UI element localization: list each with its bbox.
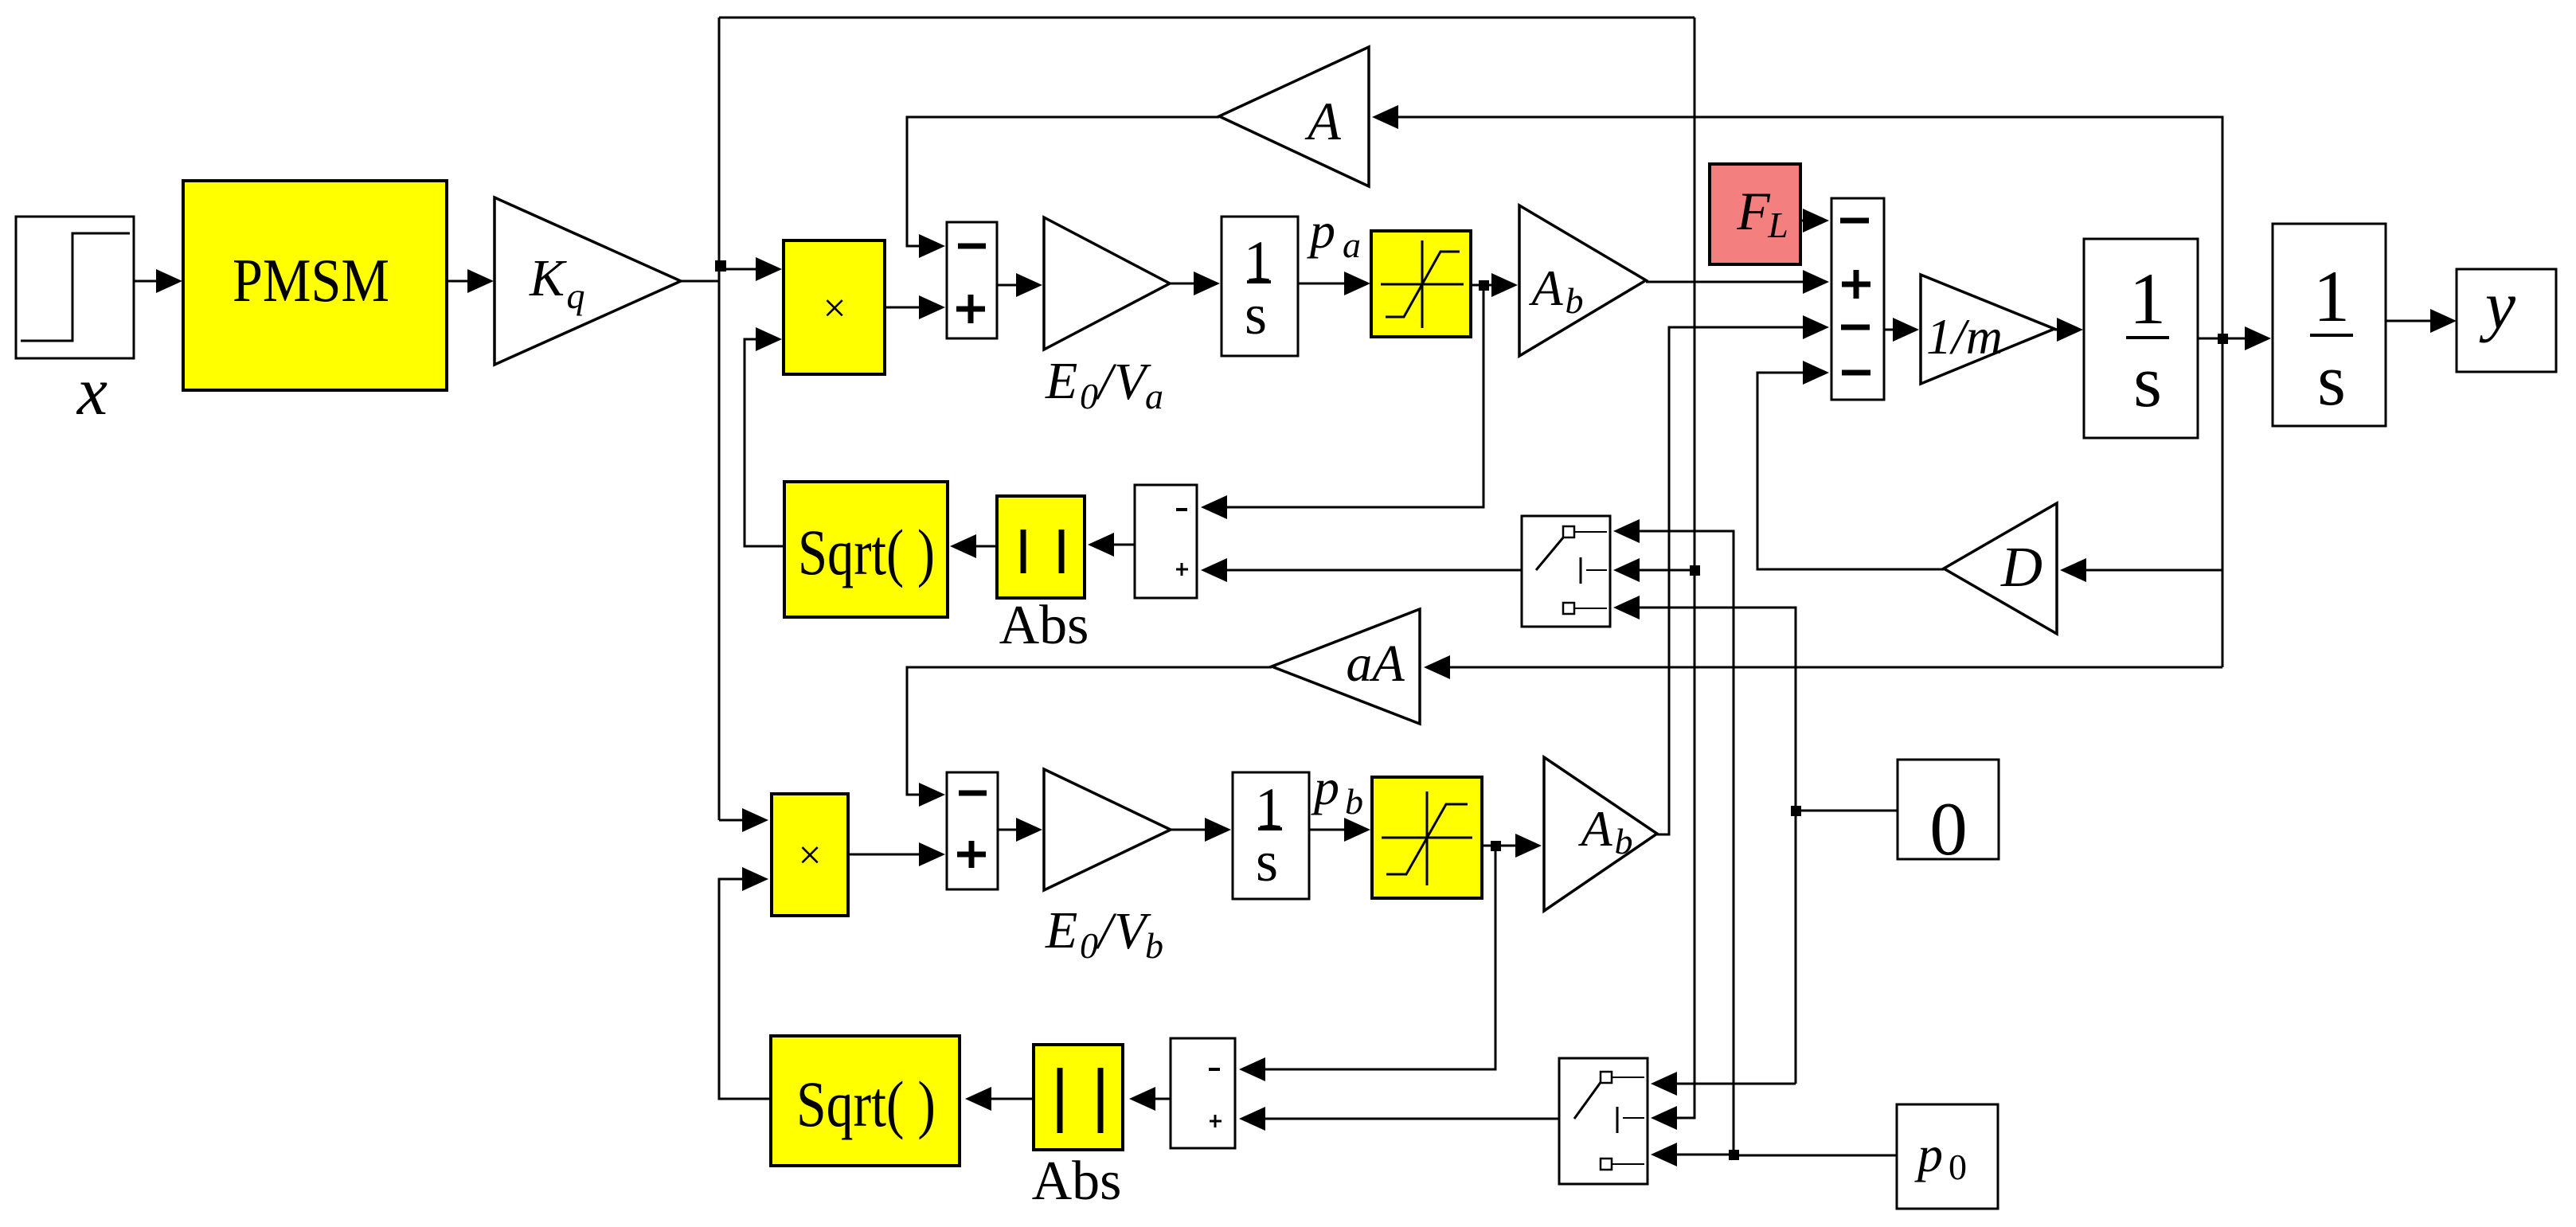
- wire step to PMSM: [134, 269, 182, 293]
- wire p0 to junction: [1734, 1155, 1897, 1157]
- block PMSM: [183, 181, 447, 390]
- svg-text:0: 0: [1080, 376, 1098, 416]
- svg-text:y: y: [2479, 267, 2516, 343]
- svg-text:Abs: Abs: [1032, 1151, 1122, 1212]
- label Abs lower: [1032, 1151, 1122, 1212]
- node junction p0 line: [1729, 1150, 1739, 1160]
- abs block abs2: [1034, 1045, 1123, 1150]
- integrator block 1/s y: [2273, 224, 2386, 426]
- wire product2 to sum2 plus: [848, 842, 945, 866]
- wire switch1 to sum3 plus: [1201, 558, 1522, 582]
- svg-text:b: b: [1566, 280, 1584, 321]
- node junction sat1 output: [1479, 280, 1489, 291]
- sum block force sum: [1831, 198, 1884, 400]
- wire Ab1 to force sum plus: [1646, 270, 1829, 294]
- svg-text:Abs: Abs: [999, 595, 1089, 656]
- svg-text:Sqrt( ): Sqrt( ): [796, 1068, 936, 1140]
- switch block switch1: [1522, 516, 1610, 627]
- svg-text:1/m: 1/m: [1926, 308, 2003, 365]
- node junction control to switch1: [1690, 565, 1700, 576]
- constant block p0: [1897, 1104, 1998, 1209]
- svg-text:1: 1: [2313, 256, 2350, 337]
- label Abs upper: [999, 595, 1089, 656]
- gain Ab lower: [1544, 757, 1657, 911]
- wire abs1 to sqrt1: [950, 534, 997, 558]
- label x: [76, 353, 107, 429]
- gain aA feedback: [1272, 609, 1420, 724]
- svg-text:0: 0: [1080, 925, 1098, 966]
- wire Q control top line: [719, 17, 1695, 19]
- wire zero to junction: [1796, 810, 1898, 812]
- constant block zero: [1898, 760, 1999, 871]
- svg-text:PMSM: PMSM: [233, 246, 389, 315]
- wire Q main vertical: [718, 18, 721, 820]
- wire Ab2 up to force sum minus3: [1657, 315, 1829, 834]
- wire zero vertical to switch1 bottom: [1613, 596, 1796, 1084]
- svg-text:1: 1: [2129, 258, 2166, 339]
- gain D damping: [1944, 503, 2057, 634]
- svg-text:s: s: [2133, 341, 2162, 422]
- svg-text:b: b: [1145, 925, 1163, 966]
- svg-text:A: A: [1528, 260, 1563, 316]
- svg-text:q: q: [567, 275, 585, 316]
- wire PMSM to Kq: [447, 269, 494, 293]
- wire FL to force sum: [1800, 209, 1829, 233]
- svg-text:0: 0: [1929, 787, 1968, 871]
- svg-text:F: F: [1736, 181, 1771, 241]
- svg-text:a: a: [1145, 376, 1163, 416]
- svg-text:0: 0: [1949, 1147, 1967, 1187]
- product block product2: [772, 794, 848, 916]
- wire Kq output to node: [681, 280, 719, 283]
- wire 1/m to integrator v: [2054, 318, 2083, 342]
- svg-text:A: A: [1577, 800, 1612, 857]
- svg-text:x: x: [76, 353, 107, 429]
- wire D up to force sum minus4: [1757, 361, 1944, 569]
- wire p0 vertical to switch1 top: [1613, 519, 1734, 1155]
- svg-text:aA: aA: [1346, 635, 1405, 693]
- wire sat1 to gain Ab1: [1471, 273, 1518, 297]
- gain 1/m: [1921, 275, 2054, 384]
- wire integrator1 to saturation1: [1298, 272, 1370, 295]
- gain E0/Vb: [1044, 769, 1171, 890]
- svg-text:×: ×: [798, 833, 821, 878]
- wire sat1 branch down to sum3 minus: [1201, 285, 1483, 519]
- saturation block sat1: [1371, 231, 1471, 337]
- wire switch2 bottom from p0: [1651, 1143, 1734, 1166]
- wire aA output to sum2 minus: [907, 667, 1272, 807]
- wire integrator v to integrator y: [2198, 326, 2271, 350]
- wire sat2 to gain Ab2: [1482, 834, 1542, 858]
- wire Q to product2 top input: [719, 808, 768, 832]
- integrator block 1/s a: [1222, 217, 1298, 356]
- wire abs2 to sqrt2: [965, 1087, 1034, 1111]
- wire sat2 branch down to sum4 minus: [1239, 846, 1495, 1081]
- wire Sqrt2 to product2 bottom input: [719, 867, 771, 1099]
- wire switch2 to sum4 plus: [1239, 1107, 1559, 1131]
- wire control branch to switch1 middle: [1613, 558, 1695, 582]
- node junction Q branch: [715, 260, 726, 272]
- wire sum3 to abs1: [1088, 533, 1135, 557]
- integrator block 1/s v: [2084, 239, 2198, 438]
- gain Ab upper: [1519, 205, 1646, 356]
- label pb: [1311, 759, 1363, 822]
- svg-text:p: p: [1307, 202, 1335, 259]
- svg-text:p: p: [1914, 1126, 1943, 1182]
- switch block switch2: [1559, 1058, 1648, 1184]
- sqrt block sqrt2: [771, 1036, 960, 1166]
- wire gainA to sum1 minus: [907, 117, 1219, 258]
- wire sum2 to gain E0/Vb: [998, 818, 1042, 842]
- svg-text:×: ×: [823, 286, 846, 331]
- node junction zero line: [1791, 806, 1801, 816]
- wire sum4 to abs2: [1129, 1087, 1171, 1111]
- wire integrator y to output y: [2386, 309, 2457, 333]
- svg-text:E: E: [1045, 901, 1077, 959]
- saturation block sat2: [1372, 777, 1482, 898]
- wire sum1 to gain E0/Va: [997, 273, 1042, 297]
- node junction sat2 output: [1491, 841, 1501, 851]
- svg-text:b: b: [1345, 781, 1363, 822]
- svg-text:A: A: [1304, 91, 1341, 151]
- sum block sum3: [1135, 485, 1197, 598]
- output block y: [2457, 267, 2556, 372]
- wire zero vertical to switch2 top: [1651, 1072, 1796, 1096]
- svg-text:p: p: [1311, 759, 1339, 815]
- svg-text:s: s: [1245, 283, 1267, 346]
- svg-text:Sqrt( ): Sqrt( ): [798, 516, 935, 588]
- integrator block 1/s b: [1233, 772, 1309, 899]
- wire velocity feedback vertical: [1372, 105, 2222, 667]
- svg-text:L: L: [1767, 205, 1788, 245]
- wire Q to product1 top input: [719, 257, 782, 281]
- sum block sum4: [1171, 1038, 1235, 1148]
- svg-text:a: a: [1343, 225, 1361, 265]
- svg-text:E: E: [1045, 352, 1077, 410]
- label E0/Va: [1045, 352, 1163, 416]
- svg-text:K: K: [529, 249, 567, 307]
- constant block FL: [1710, 164, 1800, 264]
- product block product1: [784, 240, 885, 374]
- node junction velocity tap: [2218, 334, 2228, 344]
- source block step input: [16, 217, 134, 358]
- wire product1 to sum1 plus: [885, 295, 945, 319]
- wire gain to integrator b: [1171, 818, 1231, 842]
- svg-text:s: s: [1256, 830, 1278, 893]
- gain Kq: [494, 197, 681, 365]
- gain E0/Va: [1044, 217, 1170, 350]
- sum block sum2: [947, 772, 998, 889]
- wire v bottom to gain aA: [1424, 655, 2222, 679]
- wire v branch to gain D: [2060, 558, 2222, 582]
- wire Sqrt1 to product1 bottom input: [745, 327, 784, 546]
- svg-text:s: s: [2317, 339, 2346, 420]
- svg-text:D: D: [2000, 535, 2042, 599]
- sum block sum1: [947, 222, 997, 338]
- wire force sum to gain 1/m: [1884, 318, 1919, 342]
- wire integrator b to saturation2: [1309, 818, 1370, 842]
- label pa: [1307, 202, 1361, 265]
- abs block abs1: [997, 496, 1085, 598]
- label E0/Vb: [1045, 901, 1163, 966]
- sqrt block sqrt1: [784, 482, 948, 617]
- gain A feedback: [1219, 47, 1369, 186]
- svg-text:b: b: [1615, 821, 1633, 862]
- wire control vertical to switch2 middle: [1651, 18, 1695, 1130]
- wire gain to integrator1: [1170, 272, 1220, 295]
